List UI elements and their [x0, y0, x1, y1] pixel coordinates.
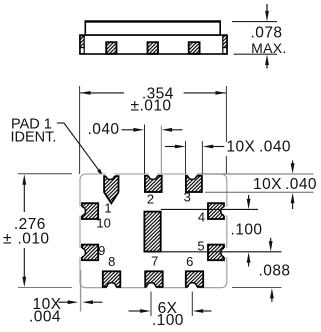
10X .040 vertical dim top line — [198, 173, 314, 175]
svg-text:4: 4 — [198, 209, 205, 224]
pad 4 — [208, 203, 224, 219]
dimension .040 extension line right — [160, 126, 162, 210]
pad 7 — [145, 271, 163, 287]
dimension .040 left-pointing arrow — [162, 128, 183, 132]
dimension .078 MAX bottom extension line — [234, 53, 278, 55]
notch pad 2 — [148, 170, 157, 179]
dimension .100 up arrow — [247, 252, 251, 266]
side view pad right — [189, 42, 200, 54]
dimension .088 up arrow — [270, 288, 274, 302]
10X .004 edge extension line — [80, 270, 82, 312]
10X .004 right-pointing arrow — [59, 300, 79, 304]
dimension .100 top line — [161, 208, 258, 210]
notch pad 5 — [221, 248, 230, 257]
svg-text:.004: .004 — [29, 309, 61, 326]
svg-text:5: 5 — [197, 238, 204, 253]
10X .040 vertical up arrow — [291, 193, 295, 209]
dimension .078 up arrow — [265, 55, 269, 69]
dimension .040 right-pointing arrow — [122, 128, 144, 132]
dimension .088 down arrow — [269, 238, 273, 252]
side view lid — [85, 22, 220, 35]
svg-text:1: 1 — [104, 201, 111, 216]
dimension 6X .100 extension line right — [191, 292, 193, 317]
svg-text:MAX.: MAX. — [251, 40, 286, 56]
svg-text:.088: .088 — [259, 263, 291, 280]
side view pad middle — [148, 42, 159, 54]
dimension .354 line left segment with arrow — [80, 91, 124, 95]
side view body — [80, 35, 227, 54]
pad 1 — [104, 176, 118, 203]
svg-text:.040: .040 — [88, 121, 120, 138]
notch pad 7 — [147, 283, 156, 292]
dimension .088 bottom extension line — [232, 287, 282, 289]
dimension .100 bottom line — [161, 251, 282, 253]
notch pad 10 — [76, 207, 85, 216]
dimension .276 line with down arrow — [22, 248, 26, 287]
dimension 10X .040 first right-pointing arrow — [165, 145, 185, 149]
side view pad left — [106, 42, 116, 54]
notch pad 4 — [221, 207, 230, 216]
dimension .276 top extension line — [18, 173, 72, 175]
svg-text:2: 2 — [147, 192, 154, 207]
pad 3 — [186, 176, 202, 192]
svg-text:.040: .040 — [285, 176, 317, 193]
dimension 6X .100 extension line left — [150, 292, 152, 317]
dimension .078 MAX top extension line — [232, 21, 277, 23]
central pad — [144, 212, 160, 252]
bottom view body outline — [80, 174, 227, 288]
dimension 10X .040 first left-pointing arrow — [203, 145, 225, 149]
svg-text:.010: .010 — [18, 230, 50, 247]
dimension .354 right extension line — [225, 86, 227, 174]
dimension .354 left extension line — [79, 86, 81, 174]
notch pad 9 — [76, 248, 85, 257]
svg-text:10X: 10X — [226, 139, 255, 156]
svg-text:6: 6 — [186, 254, 193, 269]
svg-text:10X: 10X — [253, 176, 282, 193]
dimension 6X .100 right-pointing arrow — [129, 309, 151, 313]
dimension .040 extension line left — [144, 125, 146, 210]
svg-text:.100: .100 — [231, 221, 263, 238]
pad 2 — [145, 176, 162, 192]
10X .040 vertical down arrow — [291, 161, 295, 174]
pad 5 — [208, 245, 224, 261]
dimension .078 down arrow — [265, 4, 269, 21]
notch pad 6 — [188, 283, 197, 292]
notch pad 1 — [106, 170, 115, 179]
dimension .276 line with up arrow — [22, 174, 26, 212]
pad 10 — [82, 203, 98, 219]
svg-text:9: 9 — [98, 243, 105, 258]
pad 8 — [103, 271, 121, 287]
dimension 10X .040 first extension line left — [185, 141, 187, 176]
pad 6 — [186, 271, 203, 287]
dimension 10X .040 first extension line right — [201, 141, 203, 176]
dimension .276 bottom extension line — [18, 287, 72, 289]
svg-text:±.010: ±.010 — [131, 98, 172, 115]
10X .040 vertical dim bottom line — [205, 191, 314, 193]
svg-text:10: 10 — [96, 216, 110, 231]
svg-text:.040: .040 — [259, 139, 291, 156]
svg-text:.078: .078 — [251, 24, 283, 41]
notch pad 8 — [107, 283, 116, 292]
svg-text:8: 8 — [108, 254, 115, 269]
pad 9 — [82, 245, 98, 261]
svg-text:3: 3 — [184, 190, 191, 205]
svg-text:IDENT.: IDENT. — [11, 130, 57, 146]
pad 1 leader line — [57, 123, 104, 178]
side view right castellation — [223, 36, 227, 54]
svg-text:±: ± — [3, 230, 12, 247]
notch pad 3 — [188, 170, 197, 179]
dimension .354 line right segment with arrow — [184, 91, 226, 95]
svg-text:7: 7 — [151, 253, 158, 268]
10X .004 left-pointing arrow — [82, 300, 102, 304]
dimension 6X .100 left-pointing arrow — [193, 309, 212, 313]
svg-text:.100: .100 — [152, 312, 184, 329]
dimension .100 down arrow — [247, 195, 251, 209]
side view left castellation — [80, 36, 84, 54]
